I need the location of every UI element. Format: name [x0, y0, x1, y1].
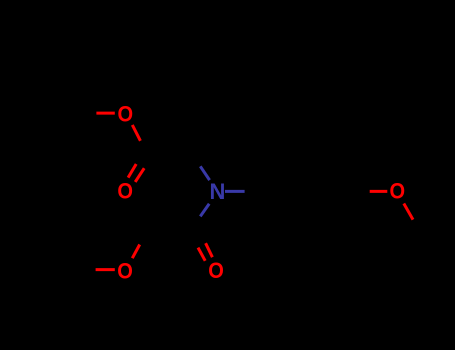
- wire: double bond C7=O6 line 2 (red half): [206, 243, 213, 257]
- wire: bond O4-C8 (red half): [132, 245, 139, 259]
- svg-text:O: O: [117, 259, 133, 284]
- wire: bond O1-ethyl CH2 (red half): [96, 112, 114, 115]
- wire: bond N-C7 amide carbonyl (blue half): [200, 204, 209, 217]
- wire: bond C4'-O5 (red half): [370, 190, 388, 193]
- svg-text:O: O: [208, 258, 224, 283]
- svg-text:O: O: [117, 179, 133, 204]
- wire: bond O5-CH3 (red half): [404, 204, 413, 220]
- svg-text:O: O: [118, 101, 134, 126]
- wire: bond O4-ethyl CH2 (red half): [96, 268, 115, 271]
- wire: double bond C2=O3 line 2 (red half): [135, 168, 144, 182]
- svg-text:N: N: [210, 179, 226, 204]
- wire: bond N-C1' ring (blue half): [225, 190, 245, 193]
- wire: double bond C2=O3 line 1 (red half): [128, 164, 136, 178]
- wire: bond N-CH2a (blue half): [200, 166, 209, 180]
- svg-text:O: O: [390, 179, 406, 204]
- wire: bond O1-C2 (red half): [132, 125, 140, 141]
- wire: double bond C7=O6 line 1 (red half): [198, 248, 205, 261]
